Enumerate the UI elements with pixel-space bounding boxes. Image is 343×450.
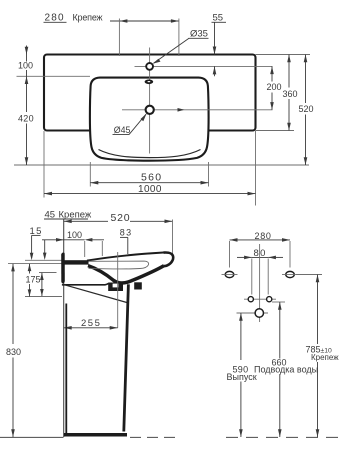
wall line (63, 220, 65, 438)
pedestal left edge (65, 304, 67, 435)
svg-text:420: 420 (18, 114, 34, 124)
basin back ledge (side) (65, 260, 89, 264)
mount hole dimension line (side) (40, 273, 44, 296)
dimension 660 Подводка воды (253, 302, 320, 437)
extension shelf line (side) (8, 263, 63, 265)
PLAN VIEW: washbasin top outline (44, 55, 256, 131)
svg-text:Выпуск: Выпуск (227, 372, 257, 382)
right bottom edge extension (256, 130, 295, 132)
svg-text:560: 560 (141, 171, 162, 183)
drain hole crosshair / 200 extension (122, 109, 273, 111)
bottom extension line (basin lowest level) (14, 164, 309, 166)
dimension 830 (side left) (6, 264, 21, 437)
basin bowl outline (plan) (90, 78, 209, 161)
drain outlet stub (side) (134, 282, 142, 289)
label 45 Крепеж (44, 209, 92, 220)
drain hole circle (146, 106, 154, 114)
label Ø45 with leader (113, 114, 147, 135)
dimension 280 Крепеж (top left) (44, 12, 179, 56)
basin back mounting bar (side) (61, 252, 65, 283)
dimension 100 (side) (42, 230, 104, 257)
basin front lip (side) (164, 253, 174, 267)
dimension 55 (top) (212, 13, 227, 77)
horizontal centerline through faucet hole / 200 extension (135, 65, 273, 67)
svg-text:100: 100 (67, 230, 82, 240)
extension mount hole top (side) (39, 272, 57, 274)
floor dashes (left of back view) (130, 436, 178, 438)
svg-text:83: 83 (120, 228, 133, 238)
vertical centerline (back) (259, 244, 261, 322)
dimension 15 (side) (30, 226, 47, 260)
dimension 100 (left) (18, 46, 33, 77)
svg-text:100: 100 (18, 61, 33, 71)
dimension 520 (right) (299, 55, 314, 166)
dimension 360 (right) (283, 55, 298, 131)
basin rim top line (side) (87, 253, 164, 261)
dimension 520 (side top) (64, 212, 173, 257)
svg-text:255: 255 (81, 318, 101, 329)
basin far rim inner outline (side) (89, 261, 149, 269)
vertical centerline through holes (149, 48, 151, 154)
svg-text:520: 520 (111, 212, 131, 224)
extension rim top (side) (25, 259, 63, 261)
dimension 280 (back) (230, 231, 291, 267)
label Ø35 with leader (153, 29, 209, 64)
svg-text:200: 200 (267, 82, 282, 92)
svg-text:1000: 1000 (138, 184, 162, 195)
fastener hole left (back) (222, 271, 238, 277)
basin inner bottom line (plan) (99, 150, 201, 158)
floor line (left) (0, 436, 64, 438)
fastener hole right (back) (282, 271, 298, 277)
svg-text:Ø45: Ø45 (114, 125, 131, 135)
dimension 255 (side) (64, 318, 118, 329)
water supply holes (back) (244, 297, 276, 302)
dimension 175 (side) (26, 264, 41, 297)
dimension 200 (right) (267, 66, 282, 109)
svg-text:Крепеж: Крепеж (311, 353, 339, 362)
dimension 420 (left) (18, 76, 34, 165)
svg-text:Подводка воды: Подводка воды (254, 365, 318, 375)
basin underside diagonal (side) (62, 284, 127, 302)
svg-text:360: 360 (283, 89, 298, 99)
dimension 83 (side) with bent leader (120, 228, 133, 255)
svg-text:280: 280 (45, 12, 65, 23)
overflow slot ellipse (145, 80, 154, 85)
basin bowl wall band (side) (88, 266, 164, 283)
pedestal front edge (124, 284, 129, 431)
faucet hole circle (146, 63, 153, 70)
drain trap box (side) (108, 283, 123, 292)
svg-text:175: 175 (26, 274, 41, 284)
dimension 590 Выпуск (227, 313, 257, 437)
basin underside line (side) (62, 283, 109, 284)
extension fastener line (side) (25, 296, 62, 298)
svg-text:520: 520 (299, 104, 314, 114)
outlet hole (back) (251, 309, 269, 317)
left extension line (basin top level) (17, 75, 91, 77)
dimension 1000 (bottom) (44, 131, 256, 206)
dimension 560 (bottom) (90, 162, 208, 187)
drain centerline (side) (117, 252, 119, 328)
svg-text:Крепеж: Крепеж (73, 12, 103, 22)
floor dashes (back view) (226, 436, 341, 438)
dimension 785±10 Крепеж (296, 275, 339, 438)
svg-text:830: 830 (6, 347, 21, 357)
right top edge extension (256, 54, 311, 56)
dimension 80 (back) (237, 248, 283, 294)
pedestal bottom (64, 433, 127, 437)
